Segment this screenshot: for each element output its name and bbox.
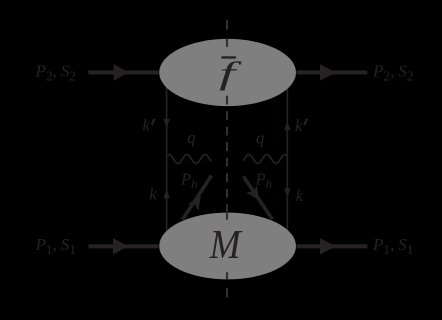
arrowhead P2 right [320,64,336,81]
arrowhead k right (down) [284,188,291,197]
prime of k' right [303,118,308,125]
prime of k' left [151,118,156,125]
blob f-bar (upper ellipse) [159,39,296,106]
svg-text:q: q [256,129,264,148]
quark line left (vertical fermion line) [166,86,168,232]
cut (vertical dashed line, lower part) [226,272,228,297]
cut (vertical dashed line, middle part) [226,96,228,212]
arrowhead P_h right (pointing down-right) [246,185,264,204]
external line P1,S1 right [297,244,368,248]
cut dash on blob M top [226,213,228,220]
overbar of f [222,56,237,58]
external line P1,S1 left [89,244,159,248]
arrowhead k' right (up) [284,121,291,130]
arrowhead P1 right [320,238,336,255]
svg-text:k: k [149,184,157,203]
external line P2,S2 left [88,70,158,74]
photon wavy line q right [243,155,287,164]
svg-text:k: k [143,116,151,135]
hadron momentum line P_h left [183,176,212,220]
hadron momentum line P_h right [243,176,272,219]
cut (vertical dashed line, upper part) [226,20,228,47]
external line P2,S2 right [297,70,368,74]
blob M (lower ellipse) [159,213,296,280]
quark line right (vertical fermion line) [286,86,288,232]
svg-text:M: M [209,221,243,267]
svg-text:q: q [187,128,195,147]
arrowhead P1 left [113,238,128,255]
svg-text:k: k [296,186,304,205]
photon wavy line q left [167,155,211,164]
arrowhead k' left (down) [163,119,170,128]
arrowhead P_h left (pointing up-right) [188,193,206,212]
arrowhead k left (up) [163,189,170,198]
svg-text:k: k [295,116,303,135]
arrowhead P2 left [114,64,129,81]
